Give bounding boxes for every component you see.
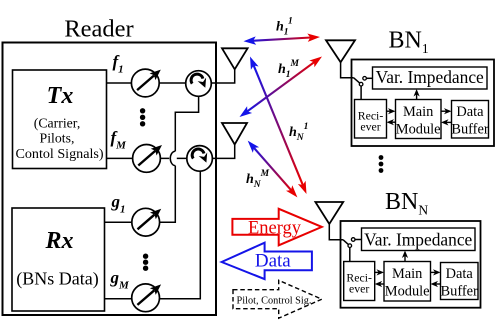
BNN Main to Reci arrow <box>375 281 384 287</box>
svg-text:Tx: Tx <box>47 83 74 109</box>
BNN Main Module box <box>384 262 431 302</box>
svg-text:Buffer: Buffer <box>441 284 479 300</box>
svg-text:ever: ever <box>349 282 369 296</box>
Energy block arrow <box>232 209 321 246</box>
dots between BN1 and BNN <box>379 155 384 173</box>
phase shifter g1 <box>132 208 161 236</box>
svg-text:Pilots,: Pilots, <box>40 131 75 146</box>
dots between f1 and fM <box>140 108 145 126</box>
BNN wire dot to Reciever <box>349 248 351 262</box>
BN1 wire dot to Var Impedance <box>367 77 373 79</box>
svg-text:Pilot, Control Sig.: Pilot, Control Sig. <box>237 295 312 306</box>
Data block arrow <box>222 243 312 279</box>
svg-text:Var. Impedance: Var. Impedance <box>364 230 472 250</box>
dots between g1 and gM <box>143 254 148 271</box>
channel arrow hNM <box>248 141 298 198</box>
wire: g1 row from Rx then up to junction <box>105 166 176 223</box>
BN1 Main to Reci arrow <box>387 119 396 125</box>
BN1 Main to Data arrow <box>441 108 452 114</box>
svg-text:Data: Data <box>255 251 291 272</box>
svg-text:(BNs Data): (BNs Data) <box>16 269 98 290</box>
BNN antenna <box>315 202 343 224</box>
BN1 switch lever <box>354 78 361 84</box>
svg-text:Module: Module <box>396 122 441 138</box>
svg-text:Data: Data <box>446 266 474 282</box>
BNN Data to Main arrow <box>431 281 441 287</box>
BNN Reciever box <box>344 262 375 301</box>
BNN Main to Data arrow <box>431 269 441 275</box>
svg-text:Main: Main <box>392 266 422 282</box>
wire: fM row right of hop to antenna2 <box>177 145 235 159</box>
BNN Reci to Main arrow <box>375 269 384 275</box>
phase shifter gM <box>132 284 161 312</box>
BNN switch throw dot lower <box>348 244 352 248</box>
svg-text:(Carrier,: (Carrier, <box>34 116 81 132</box>
Reader outer box <box>3 43 217 316</box>
svg-text:Rx: Rx <box>44 228 73 254</box>
BN1 Data Buffer box <box>452 101 489 139</box>
BN1 Main to Var arrow <box>414 89 420 100</box>
reader antenna 2 <box>222 123 247 145</box>
BN1 Reciever box <box>355 100 387 139</box>
channel arrow h1M <box>240 57 323 118</box>
channel arrow hN1 <box>250 57 307 195</box>
Rx box <box>12 208 105 311</box>
svg-text:Main: Main <box>403 104 433 120</box>
BNN wire dot to Var Impedance <box>355 239 361 241</box>
reader antenna 1 <box>222 48 248 69</box>
BNN Main to Var arrow <box>402 251 408 262</box>
BNN switch throw dot upper <box>351 238 355 242</box>
circulator 1 <box>186 71 212 97</box>
svg-text:Energy: Energy <box>248 219 302 239</box>
BN1 switch throw dot upper <box>363 77 367 81</box>
BNN antenna feed wire <box>329 224 343 240</box>
BNN Data Buffer box <box>441 263 479 300</box>
phase shifter f1 <box>131 69 160 97</box>
circulator 2 <box>187 146 213 172</box>
BN1 Reci to Main arrow <box>387 108 396 114</box>
BN1 antenna feed wire <box>341 62 354 77</box>
wire: Tx fM row left of hop <box>107 157 170 159</box>
svg-text:Data: Data <box>456 104 484 120</box>
channel arrow h11 <box>244 34 321 45</box>
BN1 switch throw dot lower <box>359 82 363 86</box>
BN1 antenna <box>326 40 355 62</box>
svg-text:Var. Impedance: Var. Impedance <box>376 67 484 87</box>
svg-text:Module: Module <box>385 284 430 300</box>
svg-text:Reader: Reader <box>64 16 133 43</box>
BN1 Data to Main arrow <box>441 119 452 125</box>
BNN Var. Impedance box <box>362 228 476 251</box>
Tx box <box>13 70 107 169</box>
BN1 box <box>352 60 495 147</box>
BNN switch lever <box>343 240 349 245</box>
BN1 wire dot to Reciever <box>360 86 362 99</box>
BN1 Main Module box <box>396 100 442 139</box>
wire: gM row from Rx up to circulator2 bottom <box>105 171 201 299</box>
Pilot Control dashed arrow <box>233 280 322 318</box>
svg-text:Contol Signals): Contol Signals) <box>15 146 103 162</box>
wire hop over fM wire <box>170 151 175 165</box>
BN1 Var. Impedance box <box>373 67 488 89</box>
svg-text:ever: ever <box>360 120 380 134</box>
BNN box <box>341 221 481 308</box>
svg-text:Buffer: Buffer <box>451 122 489 138</box>
wire: Tx f1 row to antenna1 <box>107 69 235 83</box>
phase shifter fM <box>133 145 162 173</box>
wire: vertical to circulator1 bottom <box>175 96 198 151</box>
